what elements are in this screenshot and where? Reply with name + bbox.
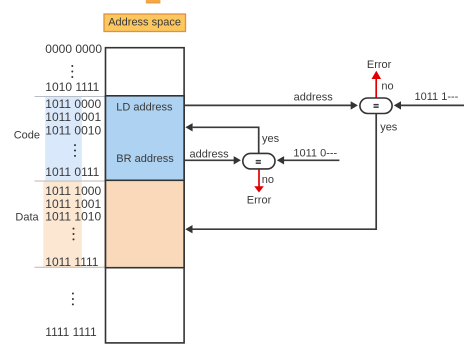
svg-text:1011 1010: 1011 1010 — [45, 210, 101, 224]
svg-text:Address space: Address space — [108, 16, 181, 28]
svg-text:1010 1111: 1010 1111 — [45, 80, 99, 94]
svg-text:yes: yes — [380, 122, 398, 134]
svg-text:Error: Error — [367, 59, 392, 71]
svg-text:1011 0000: 1011 0000 — [45, 97, 101, 111]
svg-text:1011 1---: 1011 1--- — [415, 91, 459, 103]
svg-text:Data: Data — [15, 211, 39, 223]
svg-text:1011 1111: 1011 1111 — [45, 255, 98, 269]
svg-text:1011 0010: 1011 0010 — [45, 124, 101, 138]
svg-text:yes: yes — [262, 133, 280, 145]
svg-text:address: address — [190, 148, 230, 160]
svg-text:BR address: BR address — [116, 153, 174, 165]
svg-text:1111 1111: 1111 1111 — [45, 325, 97, 339]
svg-text:Error: Error — [247, 194, 272, 206]
svg-text:1011 0001: 1011 0001 — [45, 110, 101, 124]
svg-text:address: address — [294, 91, 334, 103]
svg-text:1011 0111: 1011 0111 — [45, 165, 99, 179]
svg-text:no: no — [381, 80, 393, 92]
svg-text:1011 0---: 1011 0--- — [293, 148, 337, 160]
svg-text:LD address: LD address — [116, 102, 173, 114]
svg-text:0000 0000: 0000 0000 — [45, 42, 102, 56]
svg-text:Code: Code — [14, 129, 40, 141]
svg-text:no: no — [262, 174, 274, 186]
